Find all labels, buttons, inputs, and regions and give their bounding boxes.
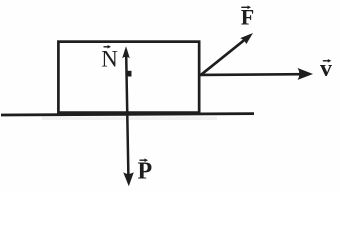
- wire N-P vertical line: [126, 50, 128, 176]
- velocity v arrow: [201, 73, 304, 76]
- arrowhead N: [122, 46, 130, 58]
- node square dot: [126, 71, 132, 77]
- svg-text:P: P: [138, 159, 153, 185]
- force F arrow: [201, 37, 249, 75]
- block (box): [58, 42, 199, 113]
- arrowhead P: [123, 172, 134, 186]
- svg-text:N: N: [101, 46, 118, 71]
- ground line: [1, 114, 254, 115]
- ground shadow artifact: [42, 117, 217, 120]
